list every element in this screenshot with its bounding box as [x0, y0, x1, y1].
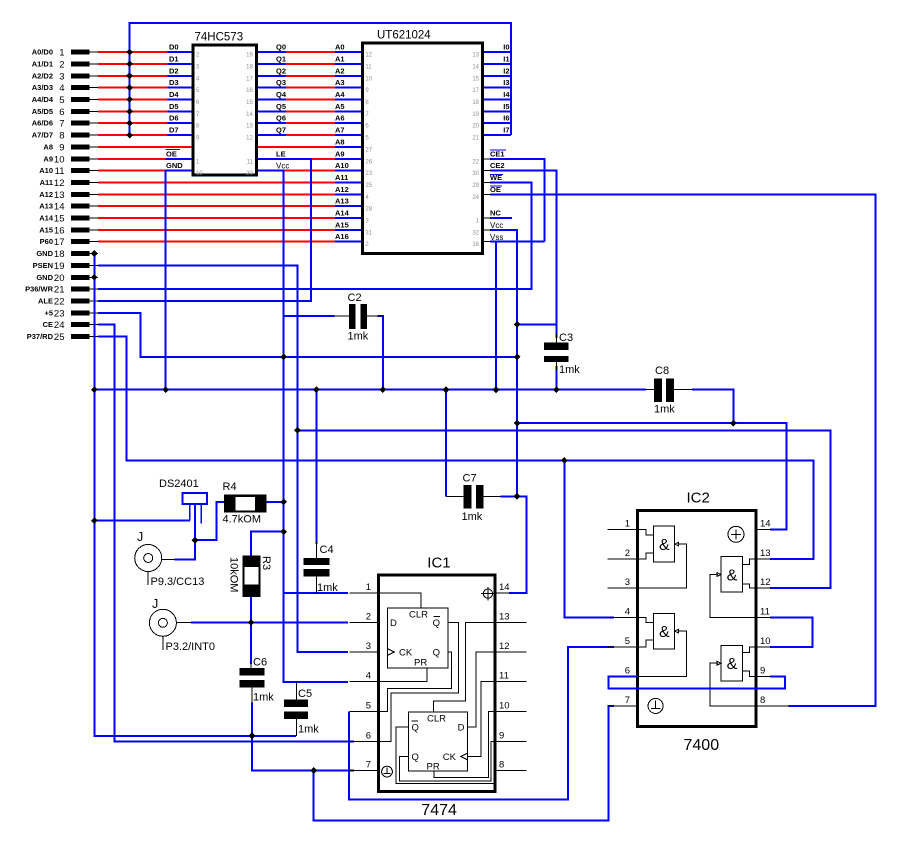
wire RAM CE1 to Vss [490, 159, 544, 242]
svg-text:+5: +5 [44, 308, 53, 317]
svg-text:A13: A13 [39, 202, 53, 211]
flip-flop FF1 (IC1 top) [387, 608, 448, 669]
wire data bus rows 1-8 red (connector to latch) [98, 52, 168, 135]
svg-text:15: 15 [472, 76, 479, 82]
IC2 7400 box [625, 490, 771, 755]
svg-text:19: 19 [472, 112, 479, 118]
svg-text:A9: A9 [43, 154, 53, 163]
junction C3 to rail [553, 386, 560, 393]
svg-text:7: 7 [625, 695, 630, 706]
latch OE label [166, 149, 180, 158]
svg-text:14: 14 [499, 582, 510, 593]
capacitor C3 [544, 332, 580, 376]
junction R3 to +5 [280, 528, 287, 535]
svg-text:29: 29 [472, 183, 479, 189]
wire P37/RD net to IC2 pin 13 [98, 337, 814, 559]
svg-text:3: 3 [625, 577, 630, 588]
junction bus row 4 [126, 84, 133, 91]
svg-text:12: 12 [499, 641, 510, 652]
RAM OE label [490, 185, 502, 194]
svg-text:17: 17 [472, 88, 479, 94]
svg-text:A0: A0 [335, 43, 345, 52]
svg-text:Vcc: Vcc [276, 162, 289, 171]
svg-text:Q: Q [433, 618, 440, 629]
svg-text:6: 6 [625, 665, 630, 676]
svg-text:CE1: CE1 [490, 149, 505, 158]
RAM UT621024 U2 [362, 30, 482, 254]
svg-text:13: 13 [472, 53, 479, 59]
svg-text:7400: 7400 [684, 737, 720, 754]
svg-text:1mk: 1mk [654, 404, 675, 416]
svg-text:4.7kOM: 4.7kOM [223, 514, 262, 526]
svg-text:12: 12 [365, 53, 372, 59]
svg-text:I0: I0 [503, 43, 509, 52]
svg-text:Q: Q [412, 723, 419, 734]
svg-text:1: 1 [366, 582, 371, 593]
wire latch GND net [166, 171, 194, 390]
capacitor C8 [646, 365, 692, 416]
svg-text:Vss: Vss [490, 233, 503, 242]
svg-text:C8: C8 [655, 365, 669, 377]
IC2 ground symbol [648, 698, 663, 713]
svg-text:8: 8 [499, 760, 504, 771]
svg-text:10: 10 [196, 171, 203, 177]
wire R3 top to +5 [251, 532, 284, 556]
NAND gate IC2A (pins 1,2 -> 3) [637, 526, 686, 588]
flip-flop FF2 (IC1 bottom) [408, 712, 467, 773]
wire DS2401 pin1 to GND [94, 520, 190, 522]
wire J1 node (DS2401 data, R4) [174, 504, 195, 559]
svg-text:P60: P60 [40, 237, 53, 246]
svg-text:R3: R3 [260, 556, 272, 570]
svg-text:A6/D6: A6/D6 [32, 119, 53, 128]
svg-text:A4/D4: A4/D4 [32, 95, 54, 104]
svg-text:D: D [458, 723, 465, 734]
wire data bus link top (D-bus to RAM I-bus) [130, 23, 511, 135]
svg-text:31: 31 [365, 230, 372, 236]
svg-text:20: 20 [246, 171, 253, 177]
wire C7 node to IC1 pin 14 [500, 496, 526, 593]
svg-text:9: 9 [760, 665, 765, 676]
junction bus row 7 [126, 120, 133, 127]
wire RAM OE to IC2 pin 8 [490, 194, 875, 706]
svg-text:10: 10 [760, 636, 771, 647]
wire C3 top lead [555, 325, 557, 339]
svg-text:26: 26 [365, 159, 372, 165]
svg-text:7474: 7474 [421, 802, 457, 819]
svg-text:A12: A12 [335, 185, 349, 194]
svg-text:5: 5 [59, 95, 64, 106]
wire RAM CE2 to +5 [490, 171, 556, 325]
RAM pin labels A0-A16 [335, 43, 350, 242]
svg-text:NC: NC [490, 209, 501, 218]
svg-text:4: 4 [625, 607, 630, 618]
junction +5 east branch [514, 420, 521, 427]
svg-text:Q4: Q4 [276, 90, 287, 99]
latch 74HC573 U1 [193, 32, 256, 178]
wire C7 riser from GND rail [445, 390, 447, 497]
DS2401 chip [159, 478, 207, 524]
svg-text:GND: GND [36, 273, 53, 282]
junction C4 to rail [313, 386, 320, 393]
svg-text:Q7: Q7 [276, 126, 286, 135]
svg-text:13: 13 [54, 190, 65, 201]
svg-text:2: 2 [366, 612, 371, 623]
svg-text:A12: A12 [39, 190, 53, 199]
svg-text:13: 13 [760, 548, 771, 559]
svg-text:3: 3 [366, 641, 371, 652]
svg-text:14: 14 [472, 65, 479, 71]
wire GND rail [94, 389, 646, 391]
svg-text:P36/WR: P36/WR [25, 285, 54, 294]
connector J2 P3.2/INT0 [149, 597, 215, 653]
svg-text:A1: A1 [335, 55, 345, 64]
junction DS2401 data node [192, 537, 199, 544]
svg-text:GND: GND [166, 161, 183, 170]
junction GND pin20 [91, 274, 98, 281]
svg-text:PR: PR [427, 762, 440, 773]
wire PSEN branch to IC2 pin 12 [297, 430, 830, 588]
svg-text:P3.2/INT0: P3.2/INT0 [166, 641, 216, 653]
IC2 power symbol [728, 526, 744, 542]
svg-text:Q: Q [412, 752, 419, 763]
wire address rows 9-17 red (connector to RAM) [98, 147, 335, 242]
svg-text:7: 7 [59, 119, 64, 130]
wire IC2 pin6 to pin9 (crosses box) [609, 676, 786, 688]
svg-text:17: 17 [246, 76, 253, 82]
svg-text:C2: C2 [348, 292, 362, 304]
wire RAM Vcc vertical [490, 230, 517, 496]
svg-text:OE: OE [166, 149, 177, 158]
IC1 internal wiring [378, 593, 495, 783]
svg-text:&: & [727, 567, 738, 584]
svg-text:Q6: Q6 [276, 114, 286, 123]
wire latch D stubs [168, 52, 194, 135]
svg-text:A11: A11 [40, 178, 53, 187]
svg-text:22: 22 [54, 297, 65, 308]
svg-text:IC2: IC2 [687, 490, 710, 507]
svg-text:A1/D1: A1/D1 [32, 60, 53, 69]
svg-text:11: 11 [760, 607, 770, 618]
svg-text:2: 2 [625, 548, 630, 559]
svg-text:10: 10 [365, 76, 372, 82]
svg-text:18: 18 [472, 100, 479, 106]
IC1 power symbol [481, 587, 495, 601]
junction C6 to GND [249, 733, 256, 740]
wire IC1 pin 7 stub [314, 770, 354, 772]
svg-text:D5: D5 [169, 102, 179, 111]
svg-text:A8: A8 [43, 142, 53, 151]
svg-text:10kOM: 10kOM [228, 557, 240, 592]
svg-text:12: 12 [54, 178, 65, 189]
svg-text:4: 4 [366, 671, 371, 682]
svg-text:8: 8 [760, 695, 765, 706]
wire rows 1-8 red (latch Q to RAM A) [286, 52, 335, 135]
svg-text:Q2: Q2 [276, 66, 286, 75]
svg-text:Q3: Q3 [276, 78, 286, 87]
svg-text:3: 3 [59, 71, 64, 82]
wire C2 right to GND rail [378, 316, 383, 390]
svg-text:15: 15 [246, 100, 253, 106]
wire R4 right to +5 [266, 501, 283, 503]
svg-text:A15: A15 [335, 220, 349, 229]
IC2 pin stubs [608, 530, 790, 706]
svg-text:5: 5 [366, 701, 371, 712]
svg-text:A14: A14 [39, 214, 54, 223]
capacitor C7 [446, 473, 500, 524]
svg-text:A6: A6 [335, 114, 345, 123]
svg-text:A2/D2: A2/D2 [32, 71, 53, 80]
svg-text:CK: CK [443, 752, 457, 763]
svg-text:1mk: 1mk [559, 364, 580, 376]
svg-text:1mk: 1mk [298, 724, 319, 736]
svg-text:20: 20 [472, 124, 479, 130]
svg-text:9: 9 [499, 730, 504, 741]
wire +5 rail from pin 23 [98, 313, 517, 357]
svg-text:D4: D4 [169, 90, 179, 99]
svg-text:A7: A7 [335, 126, 345, 135]
svg-text:Q1: Q1 [276, 55, 286, 64]
svg-text:25: 25 [54, 332, 65, 343]
svg-text:UT621024: UT621024 [377, 30, 431, 42]
svg-text:18: 18 [246, 65, 253, 71]
svg-text:CK: CK [399, 648, 413, 659]
svg-text:12: 12 [246, 136, 253, 142]
junction bus row 1 [126, 49, 133, 56]
capacitor C2 [335, 292, 383, 343]
resistor R3 10kOM [228, 555, 273, 596]
NAND gate IC2C (pins 13,12 -> 11) mirrored [710, 557, 756, 618]
svg-text:A13: A13 [335, 197, 349, 206]
svg-text:CE2: CE2 [490, 161, 505, 170]
svg-text:16: 16 [246, 88, 253, 94]
wire RAM A stubs [335, 52, 363, 242]
junction latch Vcc to +5 rail [280, 354, 287, 361]
svg-text:GND: GND [36, 249, 53, 258]
wire CE net to IC1 pin 6 [98, 325, 354, 742]
svg-text:23: 23 [365, 171, 372, 177]
svg-text:Vcc: Vcc [490, 221, 503, 230]
wire latch Q stubs [256, 52, 286, 135]
connector X1 pins 1-25 [25, 48, 98, 344]
svg-text:A10: A10 [39, 166, 53, 175]
svg-text:A7/D7: A7/D7 [32, 131, 53, 140]
junction Vss to rail [493, 386, 500, 393]
IC1 7474 box [366, 555, 510, 820]
svg-text:11: 11 [499, 671, 509, 682]
svg-text:23: 23 [54, 308, 65, 319]
svg-text:A4: A4 [335, 90, 345, 99]
wire +5 net (latch Vcc, R4, R3, IC1 pins 1,4) [256, 171, 347, 682]
svg-text:Q0: Q0 [276, 43, 286, 52]
svg-text:IC1: IC1 [427, 555, 450, 572]
svg-text:P9.3/CC13: P9.3/CC13 [151, 576, 205, 588]
svg-text:24: 24 [472, 195, 479, 201]
svg-text:&: & [727, 656, 738, 673]
svg-text:2: 2 [59, 60, 64, 71]
svg-text:J: J [137, 530, 143, 544]
wire Vss drop to GND rail [495, 242, 497, 390]
NAND gate IC2D (pins 10,9 -> 8) mirrored [710, 645, 756, 705]
svg-text:D: D [390, 618, 397, 629]
svg-text:27: 27 [365, 147, 372, 153]
capacitor C6 [240, 657, 275, 704]
svg-text:D3: D3 [169, 78, 179, 87]
svg-text:Q5: Q5 [276, 102, 286, 111]
svg-text:13: 13 [499, 612, 510, 623]
junction latch GND to rail [162, 386, 169, 393]
svg-text:19: 19 [246, 53, 253, 59]
svg-text:8: 8 [59, 131, 64, 142]
svg-text:I6: I6 [503, 114, 509, 123]
svg-text:16: 16 [472, 242, 479, 248]
svg-text:D1: D1 [169, 55, 179, 64]
svg-text:P37/RD: P37/RD [27, 332, 54, 341]
latch LE label [276, 149, 286, 158]
svg-text:14: 14 [246, 112, 253, 118]
junction +5 rail to RAM Vcc [514, 354, 521, 361]
junction R3 bottom to INT0 net [248, 619, 255, 626]
svg-text:Q: Q [433, 648, 440, 659]
wire C4 top lead from GND rail [315, 390, 317, 544]
svg-text:C7: C7 [463, 473, 477, 485]
RAM Vcc label [490, 221, 503, 230]
svg-text:14: 14 [54, 202, 65, 213]
svg-text:J: J [152, 597, 158, 611]
svg-text:6: 6 [59, 107, 64, 118]
svg-text:A5: A5 [335, 102, 345, 111]
svg-text:C3: C3 [559, 332, 573, 344]
svg-text:D6: D6 [169, 114, 179, 123]
junction C7 node to +5 [514, 493, 521, 500]
svg-text:DS2401: DS2401 [159, 478, 199, 490]
svg-text:10: 10 [499, 701, 510, 712]
wire GND to IC1 pin 7 [252, 736, 354, 771]
svg-text:C5: C5 [298, 688, 312, 700]
svg-text:CLR: CLR [409, 610, 428, 621]
svg-text:CLR: CLR [427, 714, 446, 725]
svg-text:I5: I5 [503, 102, 509, 111]
NAND gate IC2B (pins 4,5 -> 6) [637, 613, 686, 676]
junction bus row 6 [126, 108, 133, 115]
svg-text:I1: I1 [503, 55, 509, 64]
junction PSEN branch [294, 427, 301, 434]
junction IC1 pin7 branch [310, 767, 317, 774]
svg-text:17: 17 [54, 237, 65, 248]
svg-text:A3: A3 [335, 78, 345, 87]
svg-text:9: 9 [59, 142, 64, 153]
connector J1 P9.3/CC13 [135, 530, 205, 588]
svg-text:1mk: 1mk [348, 331, 369, 343]
svg-text:10: 10 [54, 154, 65, 165]
wire IC1 pin 2 net (P3.2/INT0) [191, 622, 348, 624]
svg-text:6: 6 [366, 730, 371, 741]
junction P37/RD branch [561, 457, 568, 464]
svg-text:A15: A15 [39, 225, 53, 234]
svg-text:D0: D0 [169, 43, 179, 52]
wire GND rail right of C8 [692, 390, 733, 424]
svg-text:I4: I4 [503, 90, 510, 99]
svg-text:A0/D0: A0/D0 [32, 48, 53, 57]
junction bus row 3 [126, 72, 133, 79]
junction R4 to +5 [280, 499, 287, 506]
svg-text:A8: A8 [335, 137, 345, 146]
wire C6 bottom lead [251, 703, 253, 736]
junction CE2 to +5 [514, 321, 521, 328]
latch GND label [166, 161, 183, 170]
svg-text:18: 18 [54, 249, 65, 260]
wire RAM NC stub [490, 217, 512, 219]
capacitor C4 [304, 542, 339, 594]
svg-text:30: 30 [472, 171, 479, 177]
wire C3 bottom lead [555, 366, 557, 390]
svg-text:7: 7 [366, 760, 371, 771]
svg-text:ALE: ALE [38, 297, 53, 306]
svg-text:14: 14 [760, 519, 771, 530]
junction C2 to rail [380, 386, 387, 393]
svg-text:74HC573: 74HC573 [195, 32, 244, 44]
svg-text:1: 1 [59, 48, 64, 59]
latch pin labels Q0-Q7 [276, 43, 287, 135]
svg-text:1mk: 1mk [317, 582, 338, 594]
wire RAM Vss stub [490, 241, 544, 243]
RAM pin labels I0-I7 [503, 43, 510, 135]
svg-text:1mk: 1mk [462, 511, 483, 523]
svg-text:&: & [659, 624, 670, 641]
wire GND drop to IC2 pin 7 [314, 706, 614, 821]
wire PSEN net to IC1 pin 3 [98, 266, 348, 653]
svg-text:PSEN: PSEN [33, 261, 53, 270]
svg-text:4: 4 [59, 83, 64, 94]
svg-text:D7: D7 [169, 126, 179, 135]
latch Vcc label [276, 162, 289, 171]
svg-text:1: 1 [625, 519, 630, 530]
svg-text:&: & [659, 537, 670, 554]
svg-text:I2: I2 [503, 66, 509, 75]
junction GND rail left [91, 386, 98, 393]
svg-text:LE: LE [276, 149, 286, 158]
svg-text:PR: PR [414, 658, 427, 669]
svg-text:11: 11 [247, 159, 254, 165]
RAM Vss label [490, 233, 503, 242]
svg-text:A5/D5: A5/D5 [32, 107, 53, 116]
svg-text:1mk: 1mk [253, 692, 274, 704]
wire IC2 pin11 to pin10 [770, 618, 813, 647]
junction C7 to rail [443, 386, 450, 393]
svg-text:I7: I7 [503, 126, 509, 135]
svg-text:D2: D2 [169, 66, 179, 75]
wire IC1 pin5 to IC2 pin5 [349, 647, 614, 799]
RAM CE2 label [490, 161, 505, 170]
svg-text:C4: C4 [320, 544, 334, 556]
svg-text:12: 12 [760, 577, 771, 588]
svg-text:A11: A11 [335, 173, 348, 182]
latch pin labels D0-D7 [169, 43, 179, 135]
wire WE to P36/WR [98, 183, 531, 290]
wire ALE-LE net [98, 159, 311, 301]
svg-text:A14: A14 [335, 209, 350, 218]
svg-text:16: 16 [54, 225, 65, 236]
svg-text:11: 11 [365, 65, 372, 71]
svg-text:20: 20 [54, 273, 65, 284]
svg-text:11: 11 [55, 166, 65, 177]
svg-text:13: 13 [246, 124, 253, 130]
svg-text:28: 28 [365, 207, 372, 213]
junction bus row 5 [126, 96, 133, 103]
svg-text:25: 25 [365, 183, 372, 189]
svg-text:I3: I3 [503, 78, 509, 87]
svg-text:A10: A10 [335, 161, 349, 170]
